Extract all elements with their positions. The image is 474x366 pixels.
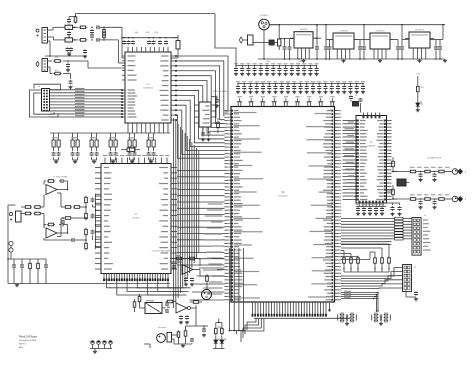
resistor RP7 (392, 235, 406, 237)
text line out row labels (410, 167, 450, 196)
wire (48, 27, 66, 40)
capacitor C26 (362, 39, 366, 59)
wire (387, 202, 400, 204)
capacitor CB3 (90, 152, 99, 156)
wire U3 bottom rail (254, 317, 350, 319)
capacitor C2 (67, 29, 71, 38)
ground (73, 160, 77, 163)
resistor R83 (138, 295, 141, 303)
wire (186, 318, 197, 330)
text J4 labels (423, 215, 431, 251)
resistor R63 (34, 206, 42, 209)
op-amp U12B (176, 303, 191, 313)
text (414, 267, 416, 269)
wire U3 top pin pairs (237, 98, 335, 106)
capacitor C3 (90, 27, 94, 34)
wire U1 left pins bus (121, 89, 137, 118)
capacitor C8 (83, 49, 87, 56)
ground (68, 86, 72, 89)
capacitor C63 (255, 81, 259, 93)
wire U4 left pins (343, 120, 359, 201)
capacitor C92 (356, 204, 360, 215)
op-amp U12A (182, 265, 193, 275)
wire U2 bottom pad row (103, 279, 169, 282)
resistor R4 (103, 27, 106, 37)
fuse F1 (278, 28, 281, 50)
svg-text:J3: J3 (38, 86, 40, 88)
resistor R80 (175, 255, 183, 260)
text (465, 199, 466, 201)
capacitor C99 (397, 203, 401, 216)
connector J7 line out jack (452, 196, 463, 202)
text (158, 326, 166, 329)
wire U2 left pins (95, 168, 101, 270)
capacitor C102 (61, 220, 65, 225)
capacitor C65 (267, 81, 271, 93)
wire (356, 206, 386, 208)
wire bus J3 to U1 (50, 90, 123, 117)
capacitor C48 (284, 63, 288, 75)
capacitor C16 (158, 37, 162, 45)
text U3 left pin names (234, 110, 263, 300)
wire bus U2 to U3 (177, 171, 225, 266)
resistor R54 (438, 170, 446, 173)
resistor RS2 (350, 256, 353, 269)
diode D3 (253, 40, 277, 45)
connector J9 DC power jack (259, 19, 270, 30)
ground (92, 160, 96, 163)
capacitor C116 (184, 277, 188, 286)
potentiometer VR1 (145, 300, 162, 313)
wire (44, 181, 68, 190)
op-amp U7B (46, 228, 57, 238)
resistor R53 (424, 170, 432, 173)
resistor R66 (64, 206, 72, 209)
op-amp U4 DSP body (356, 116, 387, 204)
resistor RP3 (392, 223, 406, 225)
wire (69, 14, 215, 17)
op-amp U3 FPGA body (231, 107, 335, 303)
capacitor C22 (313, 38, 321, 60)
capacitor C86 (432, 171, 436, 182)
svg-text:EP1C6Q240: EP1C6Q240 (279, 196, 288, 198)
wire U3 right pins (331, 110, 341, 301)
resistor RP4 (392, 226, 406, 228)
capacitor C10 (69, 80, 73, 84)
resistor R50 (392, 157, 395, 169)
capacitor C62 (248, 81, 252, 93)
wire (73, 27, 79, 41)
capacitor C81 (207, 127, 211, 137)
wire U1 bottom pins (128, 123, 168, 133)
wire (171, 37, 178, 39)
wire (263, 30, 265, 60)
voltage regulator U10 (366, 31, 394, 60)
resistor network RN6 (147, 133, 155, 151)
ground (15, 284, 19, 287)
capacitor C85 (418, 171, 422, 182)
wire (170, 259, 200, 270)
resistor R3 (79, 39, 88, 42)
capacitor C106 (91, 230, 95, 235)
svg-text:U4: U4 (370, 142, 372, 144)
capacitor C1 (67, 17, 71, 26)
wire (347, 321, 381, 323)
svg-text:U6 LM4880 5POLE: U6 LM4880 5POLE (427, 158, 442, 160)
resistor R52 (409, 170, 417, 173)
capacitor C7 (66, 47, 74, 52)
capacitor C50 (296, 63, 300, 75)
capacitor C45 (265, 63, 269, 75)
wire bypass rail B (238, 83, 363, 85)
resistor R70 (85, 196, 88, 204)
capacitor C112 (44, 263, 48, 269)
text U2 top pin labels (103, 155, 169, 156)
capacitor C6 (96, 38, 100, 42)
capacitor C123 (202, 325, 206, 337)
ground (67, 53, 71, 56)
svg-text:+3VB: +3VB (145, 32, 150, 34)
capacitor C12 (127, 37, 131, 45)
wire ground rail left (8, 283, 170, 285)
capacitor C15 (152, 37, 156, 45)
capacitor C64 (261, 81, 265, 93)
light-emitting diode D5 (214, 336, 220, 349)
text (427, 158, 442, 160)
capacitor C17 (164, 37, 168, 45)
svg-text:J5: J5 (414, 267, 416, 269)
inductor FB1 (121, 146, 140, 152)
op-amp U2 body (101, 164, 171, 274)
capacitor C41 (240, 63, 244, 75)
text (344, 291, 351, 298)
capacitor C24 (328, 39, 332, 59)
light-emitting diode D6 (220, 336, 226, 349)
capacitor CB6 (147, 152, 156, 156)
text U3 top pin labels (238, 96, 335, 97)
resistor RP1 (392, 217, 406, 219)
wire (325, 24, 444, 39)
wire (54, 157, 59, 160)
capacitor C78 (348, 81, 352, 93)
wire (135, 294, 171, 312)
wire (200, 270, 208, 290)
capacitor C100 (59, 179, 65, 183)
capacitor C30 (438, 39, 442, 59)
connector MIC1 jack (202, 290, 212, 300)
wire (14, 269, 46, 284)
svg-text:D1: D1 (421, 104, 423, 106)
wire (341, 251, 358, 257)
svg-text:U8 REG5: U8 REG5 (300, 29, 307, 31)
voltage regulator U9 (329, 31, 358, 60)
capacitor C44 (259, 63, 263, 75)
resistor network RN3 (90, 133, 98, 151)
text U4 left pin names (360, 120, 368, 200)
capacitor C9 (66, 60, 70, 68)
resistor network RN5 (128, 133, 136, 151)
text U3 outside left net names (203, 203, 223, 300)
wire (341, 244, 389, 260)
svg-text:J9 PWR2.5: J9 PWR2.5 (260, 15, 269, 17)
wire vertical channel bus (174, 118, 225, 308)
capacitor C42 (246, 63, 250, 75)
resistor R81 (188, 257, 196, 260)
op-amp U7A (46, 185, 57, 195)
svg-text:U9 REG33: U9 REG33 (339, 31, 347, 33)
ground (201, 138, 211, 141)
wire U4 bottom pins (359, 201, 385, 207)
resistor R82 (206, 274, 209, 282)
text (465, 172, 466, 174)
wire (50, 132, 170, 134)
ground (341, 59, 447, 62)
wire (100, 27, 125, 58)
wire power rail (270, 24, 446, 26)
svg-text:B: B (465, 172, 466, 174)
capacitor C119 (165, 302, 169, 306)
wire (84, 194, 96, 250)
inductor L1B (65, 35, 73, 42)
wire (166, 302, 196, 319)
wire (90, 349, 112, 351)
light-emitting diode D1 (416, 94, 423, 107)
wire (100, 40, 125, 63)
resistor R87 (177, 330, 180, 338)
capacitor C88 (418, 198, 422, 209)
capacitor C71 (305, 81, 309, 93)
resistor R64 (24, 212, 32, 215)
wire bottom bundle (341, 292, 379, 300)
capacitor C70 (298, 81, 302, 93)
text U4 outside left labels (344, 121, 354, 196)
capacitor C120 (179, 315, 183, 324)
connector J10 input jack (9, 211, 21, 222)
resistor R85 (166, 300, 174, 303)
capacitor C14 (147, 37, 151, 45)
capacitor C4 (96, 25, 100, 29)
capacitor C95 (374, 204, 378, 215)
resistor R71 (85, 212, 88, 220)
wire (111, 157, 116, 160)
resistor R56 (424, 198, 432, 201)
ground (66, 69, 70, 72)
capacitor C68 (286, 81, 290, 93)
wire (392, 171, 453, 173)
svg-text:J4: J4 (424, 215, 426, 217)
svg-text:+3.3V: +3.3V (266, 61, 271, 63)
svg-text:R17: R17 (55, 70, 58, 72)
wire wrap (30, 84, 61, 117)
svg-text:X2: X2 (355, 95, 357, 97)
capacitor C76 (336, 81, 340, 93)
wire (144, 344, 150, 348)
resistor RP5 (392, 229, 406, 231)
svg-text:B: B (465, 199, 466, 201)
resistor R91 (221, 327, 224, 336)
capacitor C115 (172, 265, 176, 269)
resistor network RN4 (109, 133, 117, 151)
text U2 right pin names (159, 167, 168, 270)
capacitor CG4 (382, 313, 391, 323)
resistor R7 (50, 72, 62, 75)
wire stubs to U2 (95, 195, 101, 247)
capacitor CG3 (372, 313, 381, 323)
wire U4 right pins (384, 120, 392, 201)
capacitor C80 (201, 127, 205, 137)
capacitor C82 (215, 96, 219, 108)
wire U3 left pins (225, 110, 234, 301)
wire (57, 217, 84, 236)
svg-text:PMod DSP Board: PMod DSP Board (19, 336, 38, 339)
resistor RS5 (381, 256, 384, 269)
wire (211, 97, 218, 134)
capacitor C101 (59, 223, 65, 227)
resistor R57 (438, 198, 446, 201)
wire U3 bottom pins (253, 302, 330, 314)
text section label (53, 177, 68, 179)
text (38, 86, 40, 88)
test point TP1 (91, 341, 95, 349)
resistor R75 (29, 262, 32, 271)
capacitor C73 (317, 81, 321, 93)
capacitor C25 (358, 39, 362, 59)
capacitor CB4 (109, 152, 118, 156)
test point TP3 (103, 341, 107, 349)
resistor R8 (417, 76, 424, 94)
ground (93, 350, 97, 353)
capacitor C110 (12, 263, 16, 269)
capacitor C66 (273, 81, 277, 93)
wire U2 top pins (105, 158, 167, 164)
resistor R40 (217, 121, 220, 130)
wire (92, 157, 97, 160)
resistor R68 (64, 217, 72, 220)
svg-text:+3VA: +3VA (134, 31, 139, 34)
wire (316, 24, 318, 39)
resistor RP6 (392, 232, 406, 234)
ground (416, 106, 420, 112)
text (416, 74, 421, 76)
capacitor C89 (432, 198, 436, 209)
wire (45, 41, 86, 57)
svg-text:3mm stereo: 3mm stereo (158, 326, 166, 329)
crystal X1 (171, 35, 180, 58)
capacitor C49 (290, 63, 294, 75)
resistor R84 (133, 300, 136, 308)
inductor L1A (65, 22, 73, 30)
resistor RS6 (388, 256, 391, 269)
capacitor C27 (396, 39, 400, 59)
text (260, 15, 269, 17)
text U3 left pin numbers (227, 110, 230, 300)
text U3 right pin names (306, 110, 332, 300)
op-amp U1 codec body (125, 52, 171, 123)
wire rail +3VA (121, 31, 178, 38)
capacitor C94 (368, 204, 372, 215)
wire (8, 259, 46, 284)
wire U5 pins (194, 105, 216, 123)
wire bus U3 to J5 (341, 268, 403, 289)
test point TP2 (97, 341, 101, 349)
op-amp U5 body (199, 90, 227, 127)
wire (344, 265, 389, 272)
text bus net labels (75, 88, 85, 116)
wire (213, 323, 225, 349)
wire (44, 238, 84, 240)
capacitor C23 (324, 39, 328, 59)
ground (149, 160, 153, 163)
connector J6 line out jack (452, 169, 463, 175)
resistor R55 (409, 198, 417, 201)
svg-text:U11 REG12: U11 REG12 (415, 30, 424, 32)
ground (130, 160, 134, 163)
wire U3 bottom pad row (252, 309, 331, 317)
wire (229, 248, 245, 331)
text U3 right pin numbers (339, 110, 342, 300)
wire bus U3 bottom left (241, 318, 264, 342)
resistor R5 (103, 31, 106, 41)
capacitor C98 (390, 203, 394, 216)
ground (54, 160, 58, 163)
capacitor C40 (234, 63, 238, 75)
svg-text:R16: R16 (55, 57, 58, 59)
svg-text:FB1: FB1 (130, 146, 133, 148)
svg-text:+3VD: +3VD (154, 32, 159, 34)
svg-text:SW P.1: SW P.1 (19, 344, 27, 346)
resistor R6 (53, 60, 62, 63)
wire (48, 61, 53, 74)
resistor R90 (215, 327, 222, 336)
capacitor C61 (242, 81, 246, 93)
capacitor C74 (323, 81, 327, 93)
text U4 right pin names (376, 120, 383, 200)
test point TP4 (109, 341, 113, 349)
wire (387, 163, 410, 199)
capacitor C47 (277, 63, 281, 75)
capacitor C60 (236, 81, 240, 93)
svg-text:5.1 STRUCTURES: 5.1 STRUCTURES (53, 177, 68, 179)
svg-text:+3.3V: +3.3V (416, 74, 421, 76)
capacitor C117 (190, 277, 194, 286)
capacitor C75 (330, 81, 334, 93)
capacitor C122 (190, 338, 194, 342)
wire bus U1 to U3 (176, 56, 228, 158)
ground (298, 58, 305, 62)
capacitor CG2 (348, 313, 357, 323)
wire (230, 331, 244, 335)
resistor R72 (85, 228, 88, 236)
svg-text:R33: R33 (421, 87, 424, 89)
capacitor C20 (283, 38, 287, 60)
wire (63, 74, 71, 80)
wire U4 top pins (363, 113, 381, 119)
wire (212, 259, 225, 277)
connector J2 mic in jack (36, 59, 48, 72)
wire (73, 157, 78, 160)
wire (392, 198, 453, 200)
svg-text:A02: A02 (19, 346, 24, 349)
connector TB1 diamond (239, 35, 253, 45)
capacitor C103 (71, 238, 76, 242)
ground (181, 344, 185, 347)
wire (21, 195, 44, 229)
resistor R65 (34, 212, 42, 215)
capacitor C72 (311, 81, 315, 93)
capacitor C43 (253, 63, 257, 75)
capacitor CB1 (52, 152, 61, 156)
capacitor C29 (434, 39, 438, 59)
